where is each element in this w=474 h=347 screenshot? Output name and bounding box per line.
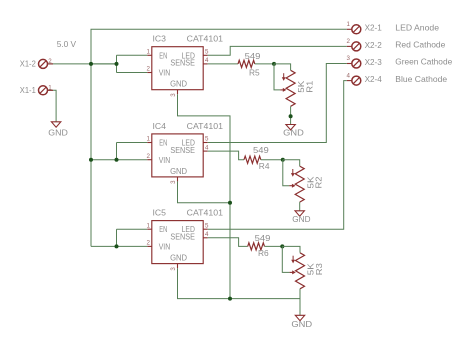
wire IC5 SENSE to R6 (208, 238, 248, 247)
IC4 pin 1 EN (147, 142, 152, 144)
svg-text:X2-3: X2-3 (365, 57, 382, 67)
wire node to R3 wiper (282, 246, 289, 272)
connector pin X1-1 (39, 86, 48, 95)
svg-text:1: 1 (147, 136, 151, 143)
svg-text:Green Cathode: Green Cathode (395, 57, 452, 67)
junction IC3 EN-VIN (115, 62, 119, 66)
wire node to R1 top (274, 64, 291, 70)
svg-text:X2-2: X2-2 (365, 40, 382, 50)
svg-text:X1-2: X1-2 (20, 59, 36, 69)
svg-text:GND: GND (170, 166, 187, 176)
R2 adjust mark (292, 169, 294, 174)
svg-text:R5: R5 (249, 67, 260, 77)
wire IC4 LED to X2-3 (208, 64, 347, 143)
svg-text:1: 1 (147, 49, 151, 56)
svg-text:1: 1 (48, 84, 52, 91)
wire X1-1 to ground (47, 90, 56, 122)
junction IC4 GND / bus (228, 201, 232, 205)
IC5 pin 4 SENSE (203, 237, 208, 239)
R1 adjust mark (283, 73, 285, 78)
wire 5V rail (91, 29, 347, 246)
svg-text:5.0 V: 5.0 V (57, 39, 77, 49)
svg-text:SENSE: SENSE (170, 58, 195, 68)
svg-text:EN: EN (159, 224, 167, 234)
svg-text:3: 3 (170, 267, 177, 271)
svg-text:2: 2 (347, 38, 351, 45)
svg-text:3: 3 (347, 55, 351, 62)
svg-text:EN: EN (159, 50, 167, 60)
svg-text:2: 2 (147, 153, 151, 160)
wire node to R2 top (283, 160, 300, 166)
svg-text:IC5: IC5 (153, 208, 167, 218)
svg-text:1: 1 (147, 222, 151, 229)
svg-text:549: 549 (245, 51, 261, 61)
svg-text:SENSE: SENSE (170, 145, 195, 155)
svg-text:4: 4 (205, 144, 209, 151)
svg-text:VIN: VIN (159, 242, 171, 252)
svg-text:X2-1: X2-1 (365, 23, 382, 33)
wire 5V branch to IC4 (91, 159, 147, 161)
svg-text:GND: GND (170, 79, 187, 89)
junction IC4 EN-VIN (115, 158, 119, 162)
svg-text:LED Anode: LED Anode (395, 23, 439, 33)
R1 wiper arrow (280, 89, 285, 91)
wire R4 to node N2 (261, 159, 283, 161)
junction IC5 EN-VIN (115, 244, 119, 248)
X2-3 pin stub (347, 63, 352, 65)
junction 5V rail / IC3 (89, 62, 93, 66)
IC5 pin 3 GND (177, 264, 179, 269)
svg-text:2: 2 (147, 66, 151, 73)
svg-text:GND: GND (170, 253, 187, 263)
svg-text:2: 2 (48, 58, 52, 65)
svg-text:IC4: IC4 (153, 121, 167, 131)
IC5 pin 5 LED (203, 228, 208, 230)
IC3 pin 2 VIN (147, 72, 152, 74)
svg-text:R6: R6 (258, 248, 269, 258)
wire node to R3 top (282, 246, 300, 252)
svg-text:EN: EN (159, 138, 167, 148)
trimmer potentiometer R3 5K (296, 253, 305, 289)
svg-text:X1-1: X1-1 (20, 85, 36, 95)
svg-text:R1: R1 (304, 80, 314, 92)
wire R3 bottom through ground rail to ground (299, 289, 301, 316)
svg-text:IC3: IC3 (153, 34, 167, 44)
R2 wiper arrow (289, 185, 294, 187)
svg-text:R4: R4 (259, 161, 270, 171)
IC3 pin 3 GND (177, 90, 179, 95)
IC3 pin 4 SENSE (203, 63, 208, 65)
IC4 pin 2 VIN (147, 159, 152, 161)
svg-text:VIN: VIN (159, 68, 171, 78)
svg-text:4: 4 (205, 231, 209, 238)
svg-text:CAT4101: CAT4101 (187, 208, 224, 218)
svg-text:4: 4 (347, 72, 351, 79)
svg-text:GND: GND (292, 214, 310, 224)
svg-text:X2-4: X2-4 (365, 74, 382, 84)
R3 adjust mark (292, 256, 294, 261)
X2-2 pin stub (347, 45, 352, 47)
svg-text:SENSE: SENSE (170, 232, 195, 242)
svg-text:Red Cathode: Red Cathode (395, 40, 445, 50)
ground GND below R1 (286, 125, 295, 130)
connector pin X2-1 (352, 25, 361, 34)
svg-text:549: 549 (253, 145, 269, 155)
op-amp driver IC5 CAT4101 (152, 221, 203, 264)
svg-text:R3: R3 (314, 263, 324, 275)
connector pin X2-4 (352, 76, 361, 85)
wire R5 to node N1 (255, 63, 274, 65)
junction ground bus / bottom rail (228, 297, 232, 301)
trimmer potentiometer R2 5K (295, 166, 304, 202)
svg-text:R2: R2 (314, 176, 324, 188)
svg-text:5: 5 (205, 136, 209, 143)
node N2 junction (281, 158, 285, 162)
svg-text:5: 5 (205, 222, 209, 229)
ground GND below R2 (295, 211, 304, 216)
resistor R4 549 (244, 156, 261, 163)
R3 wiper arrow (290, 271, 295, 273)
svg-text:4: 4 (205, 57, 209, 64)
connector pin X2-2 (352, 42, 361, 51)
svg-text:549: 549 (255, 233, 271, 243)
svg-text:Blue Cathode: Blue Cathode (395, 74, 447, 84)
IC5 pin 2 VIN (147, 245, 152, 247)
wire IC5 LED to X2-4 (208, 81, 347, 230)
svg-text:GND: GND (48, 128, 68, 138)
wire IC3 SENSE to R5 (208, 63, 238, 65)
wire R2 bottom to ground (299, 202, 301, 211)
svg-text:1: 1 (347, 21, 351, 28)
connector pin X2-3 (352, 59, 361, 68)
junction R1 bottom (289, 114, 293, 118)
svg-text:3: 3 (170, 180, 177, 184)
svg-text:GND: GND (283, 128, 304, 138)
resistor R6 549 (248, 243, 265, 250)
ground GND below X1-1 (51, 122, 60, 127)
wire node to R2 wiper (283, 160, 290, 186)
IC4 pin 3 GND (177, 177, 179, 182)
wire IC3 GND down to ground bus (178, 94, 231, 298)
wire node to R1 wiper (274, 64, 280, 90)
junction 5V rail / IC4 (89, 158, 93, 162)
ground GND below R3 (295, 315, 304, 320)
wire IC5 GND and bottom ground rail (178, 268, 301, 299)
svg-text:CAT4101: CAT4101 (187, 34, 224, 44)
resistor R5 549 (238, 60, 255, 67)
wire IC4 SENSE to R4 (208, 151, 244, 160)
wire 5V branch to IC5 (91, 245, 147, 247)
IC3 pin 5 LED (203, 54, 208, 56)
wire R6 to node N3 (265, 245, 283, 247)
IC4 pin 4 SENSE (203, 150, 208, 152)
wire IC3 LED to X2-2 (208, 46, 347, 55)
X2-1 pin stub (347, 28, 352, 30)
wire IC4 GND to ground bus (178, 181, 231, 202)
op-amp driver IC3 CAT4101 (152, 47, 203, 90)
op-amp driver IC4 CAT4101 (152, 134, 203, 177)
svg-text:CAT4101: CAT4101 (187, 121, 224, 131)
svg-text:VIN: VIN (159, 155, 171, 165)
wire 5V branch to IC3 (91, 63, 117, 65)
IC5 pin 1 EN (147, 228, 152, 230)
node N3 junction (280, 244, 284, 248)
wire X1-2 to 5V rail (47, 63, 116, 65)
IC4 pin 5 LED (203, 142, 208, 144)
IC3 pin 1 EN (147, 54, 152, 56)
node N1 junction (272, 62, 276, 66)
svg-text:2: 2 (147, 240, 151, 247)
svg-text:3: 3 (170, 93, 177, 97)
X2-4 pin stub (347, 80, 352, 82)
trimmer potentiometer R1 5K (286, 70, 295, 106)
connector pin X1-2 (39, 59, 48, 68)
svg-text:GND: GND (291, 319, 312, 329)
wire R1 bottom to ground (290, 106, 292, 124)
svg-text:5: 5 (205, 49, 209, 56)
